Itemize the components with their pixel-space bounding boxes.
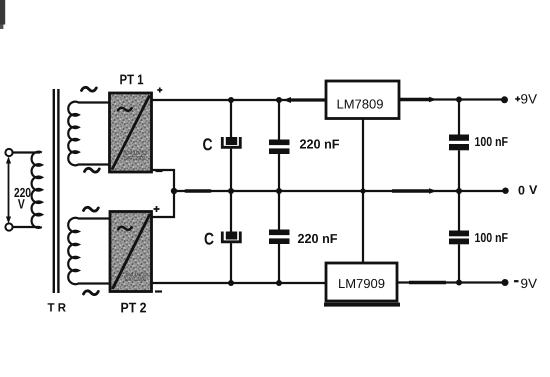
capacitor 220nF bottom — [269, 191, 290, 283]
label V — [18, 199, 25, 208]
label 220nF bottom — [298, 234, 337, 243]
PT1 type marking text line 1 — [123, 151, 147, 155]
transformer TR primary terminal bottom — [5, 223, 12, 230]
label 100nF top — [475, 137, 507, 146]
capacitor C2 electrolytic — [222, 191, 240, 283]
ac wave above secondary 2 — [84, 207, 99, 211]
label PT 1 — [120, 75, 143, 85]
transformer TR primary winding — [32, 152, 42, 228]
plus mark PT2 — [154, 206, 160, 212]
capacitor C1 electrolytic — [222, 100, 240, 191]
PT1 type marking text line 2 — [124, 156, 145, 160]
wire middle rail thick segment right — [392, 189, 430, 192]
minus mark PT1 — [156, 170, 163, 172]
transformer TR secondary winding 1 — [68, 102, 109, 166]
wire primary bottom lead — [13, 226, 40, 228]
label 100nF bottom — [475, 233, 507, 242]
transformer TR core — [53, 89, 55, 293]
PT2 type marking text line 1 — [124, 272, 148, 276]
wire LM7909 output thick — [409, 281, 446, 284]
node middle rail 100nF — [456, 188, 462, 194]
wire PT1 minus to 0V node — [152, 170, 175, 191]
minus mark PT2 — [155, 290, 162, 292]
node top rail 220nF — [276, 97, 282, 103]
bridge rectifier PT2 — [110, 212, 152, 292]
capacitor 100nF top — [449, 100, 469, 191]
ac wave below secondary 2 — [84, 291, 99, 295]
label C2 — [205, 233, 214, 245]
label 220nF top — [300, 139, 339, 148]
ac wave above secondary 1 — [82, 87, 97, 91]
ac wave below secondary 1 — [85, 168, 100, 172]
wire LM7909 ground pin — [362, 191, 364, 263]
label -9V — [514, 280, 519, 282]
plus mark PT1 — [157, 88, 162, 93]
label 0 V — [519, 186, 525, 195]
regulator U2 LM7909 — [324, 263, 400, 307]
node middle rail C1 — [228, 188, 234, 194]
label TR — [48, 303, 66, 311]
wire bottom rail PT2 to LM7909 — [152, 282, 327, 284]
node top rail C1 — [228, 97, 234, 103]
wire middle rail thick segment — [186, 189, 210, 193]
terminal -9V — [502, 279, 509, 286]
label C1 — [203, 138, 212, 150]
wire primary top lead — [13, 151, 40, 153]
voltage arrow 220V — [8, 162, 10, 218]
bridge rectifier PT1 — [110, 93, 152, 172]
capacitor 100nF bottom — [449, 191, 469, 283]
PT2 type marking text line 2 — [125, 278, 146, 282]
node bottom rail C2 — [228, 280, 234, 286]
wire top rail PT1 to LM7809 — [152, 99, 327, 101]
node bottom rail 220nF — [276, 280, 282, 286]
wire arrow into LM7809 — [283, 97, 291, 103]
capacitor 220nF top — [269, 100, 290, 191]
terminal +9V — [501, 96, 508, 103]
wire PT2 plus to 0V node — [152, 191, 175, 217]
transformer TR primary terminal top — [5, 149, 12, 156]
node top rail 100nF — [456, 97, 462, 103]
wire LM7809 ground pin — [362, 119, 364, 191]
wire LM7909 output — [397, 281, 503, 283]
wire middle rail — [174, 190, 504, 192]
transformer TR secondary winding 2 — [68, 218, 109, 284]
wire LM7809 output thick — [399, 98, 430, 101]
wire LM7809 output — [399, 98, 504, 100]
label 220 — [14, 188, 30, 197]
node middle rail regulators — [360, 188, 365, 193]
node 0V corner — [171, 188, 177, 194]
node middle rail 220nF — [276, 188, 282, 194]
label PT 2 — [121, 303, 146, 313]
node bottom rail 100nF — [456, 280, 462, 286]
label +9V — [515, 96, 520, 101]
terminal 0V — [502, 188, 508, 194]
regulator U1 LM7809 — [326, 81, 399, 119]
